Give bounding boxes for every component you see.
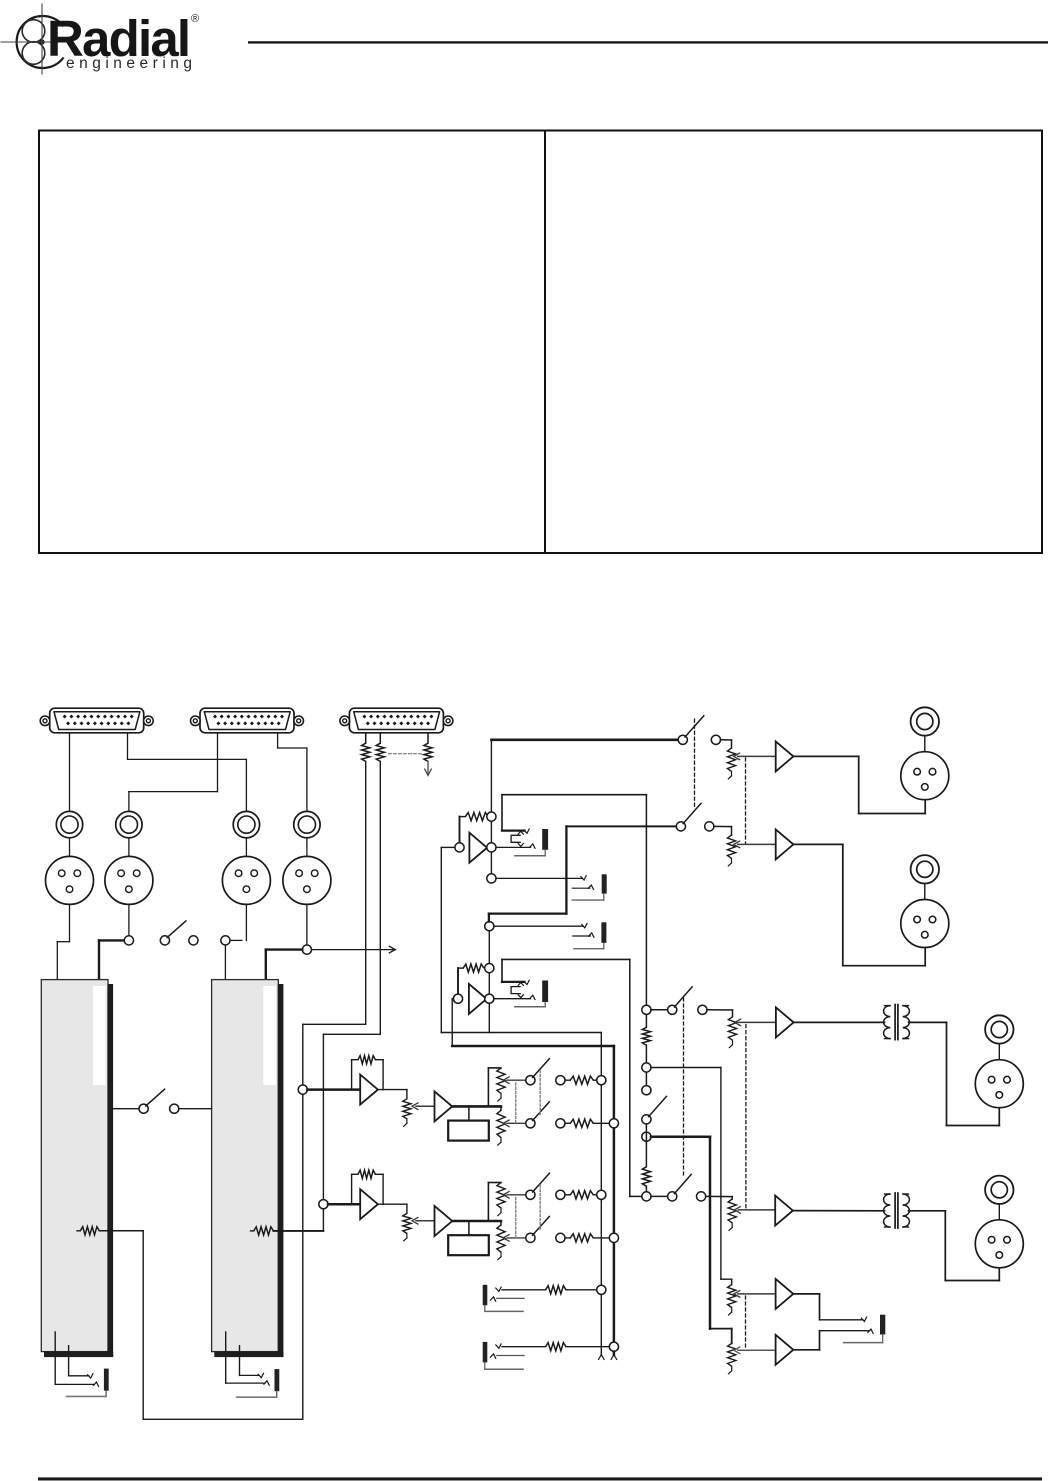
- svg-text:engineering: engineering: [66, 55, 197, 72]
- svg-text:®: ®: [191, 13, 199, 25]
